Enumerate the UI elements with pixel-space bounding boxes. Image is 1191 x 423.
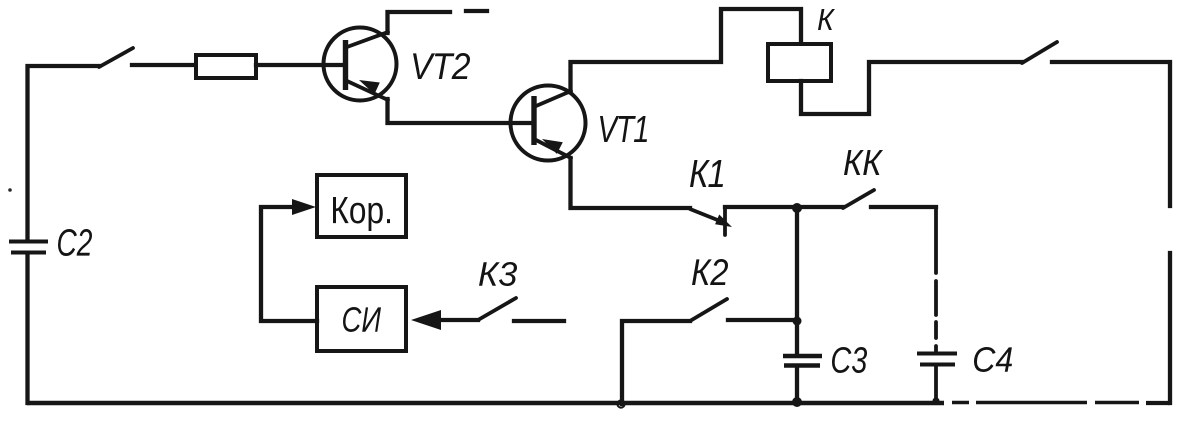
capacitor C3 [783,356,822,366]
wire C4 branch down [934,207,938,351]
transistor VT2 [324,28,397,101]
wire VT2 collector up [388,12,451,33]
wire feedback SI to Kor with arrow [261,199,317,321]
label C3 [832,347,867,373]
switch S1 top-left blade [99,48,133,67]
node junction C bottom [792,397,802,407]
wire K2 to node B [728,318,795,322]
wire junction down to K2 node [795,208,799,321]
label KK [844,150,883,175]
label SI [343,307,381,332]
switch K3 blade with arrow into SI [411,298,516,330]
wire VT1 emitter down [571,158,691,208]
wire to right rail [1052,62,1170,206]
wire VT1 collector to relay loop [571,9,802,92]
resistor R1 [196,55,256,78]
wire switch to resistor [132,63,195,67]
switch K contact top-right blade [1022,42,1057,63]
label K1 [690,160,723,187]
label C4 [974,347,1012,372]
label C2 [58,229,92,256]
wire VT2 emitter to VT1 base [388,99,534,123]
box SI [317,287,406,351]
box Kor [317,175,406,237]
transistor VT1 [511,86,586,161]
wire node B to C3 [795,321,799,353]
label VT1 [600,116,647,142]
wire C3 to bottom [795,368,799,403]
switch K2 blade [690,299,727,321]
wire left rail bottom segment [25,253,29,403]
label Kor [333,197,390,231]
wire C4 to bottom [934,366,938,401]
wire top dash [466,9,487,13]
wire KK to C4 branch [871,205,936,209]
wire K3 dash [514,319,564,323]
label K2 [692,259,728,285]
switch K1 blade [690,208,732,235]
wire right rail lower [1168,253,1172,403]
wire relay bottom loop [801,62,1022,114]
wire K1 to junction [725,205,797,209]
wire resistor to VT2 base [256,63,344,67]
label VT2 [413,53,470,79]
wire K2 branch vertical [622,321,690,404]
capacitor C2 [9,242,48,253]
label K [818,9,835,30]
label K3 [479,262,517,286]
wire junction to KK [797,205,843,209]
switch KK blade [843,190,874,208]
node junction B [793,317,802,326]
node C4 bottom junction [932,397,939,404]
capacitor C4 [917,354,957,365]
scan speck [8,188,12,192]
node junction A [792,203,802,213]
relay K coil [768,44,831,81]
node K2 bottom ring [617,400,624,407]
wire bottom rail [27,400,1170,405]
wire left rail top segment [28,66,100,241]
